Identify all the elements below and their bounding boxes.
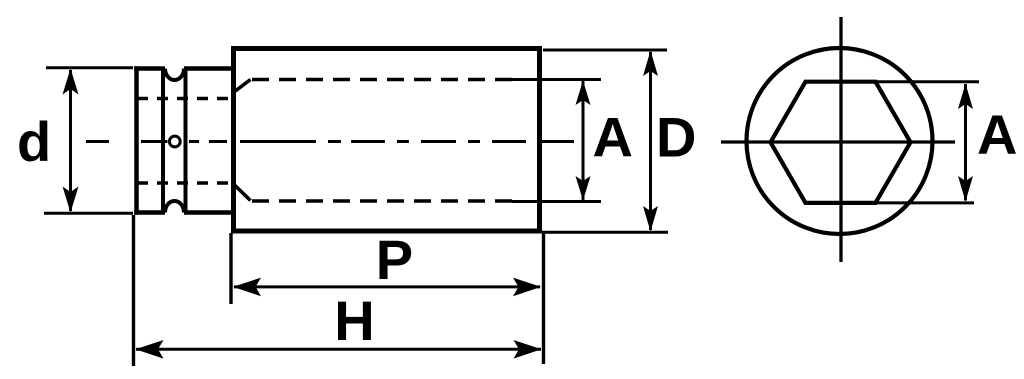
dimension A (side view) arrowhead down [576, 176, 591, 201]
svg-text:A: A [593, 106, 633, 169]
dimension P extension line left [229, 233, 232, 304]
dimension P arrow line [234, 285, 540, 288]
dimension H arrowhead right [514, 340, 542, 359]
end view: hex bore [771, 82, 911, 203]
dimension A (side view) extension line top [512, 78, 601, 81]
svg-text:D: D [656, 106, 696, 169]
socket body outline [234, 49, 540, 232]
hex bore hidden line bottom (dashed) [252, 199, 522, 203]
end view: horizontal center line [721, 140, 955, 143]
dimension d arrow line [69, 70, 72, 211]
dimension P arrowhead right [513, 278, 541, 297]
shared extension line right (P and H) [542, 233, 545, 364]
dimension H arrowhead left [136, 340, 164, 359]
dimension A (side view) arrowhead up [576, 81, 591, 106]
dimension d arrowhead down [63, 187, 79, 213]
hex bore chamfer top [234, 80, 251, 93]
detent ball [169, 136, 180, 147]
svg-text:H: H [334, 289, 374, 352]
svg-text:P: P [376, 228, 413, 291]
dimension A (side view) arrow line [582, 81, 585, 200]
dimension H extension line left [132, 215, 135, 366]
svg-text:d: d [17, 110, 51, 173]
shank hidden edge top (dashed) [137, 97, 231, 100]
retaining ring groove top notch [165, 69, 184, 81]
end view: socket outer circle [747, 48, 933, 234]
end view: vertical center line [839, 17, 842, 262]
svg-text:A: A [977, 103, 1017, 166]
dimension d extension line top [46, 66, 133, 69]
dimension D extension line bottom [542, 231, 668, 234]
dimension D arrow line [649, 52, 652, 230]
dimension D extension line top [543, 49, 667, 52]
dimension d extension line bottom [44, 212, 133, 215]
dimension A (end view) arrowhead down [958, 176, 973, 202]
dimension A (end view) extension line top [874, 80, 979, 83]
dimension D arrowhead down [643, 206, 658, 232]
retaining ring groove bottom notch [165, 201, 184, 212]
groove left edge [161, 69, 165, 213]
dimension A (side view) extension line bottom [512, 200, 601, 203]
dimension A (end view) arrowhead up [958, 84, 973, 110]
dimension D arrowhead up [643, 51, 658, 77]
dimension A (end view) extension line bottom [874, 201, 974, 204]
hex bore chamfer bottom [234, 185, 251, 201]
dimension A (end view) arrow line [964, 84, 967, 201]
dimension d arrowhead up [63, 69, 79, 95]
center line (dash-dot axis of socket, side view) [86, 140, 574, 143]
dimension P arrowhead left [233, 278, 261, 297]
hex bore hidden line top (dashed) [252, 78, 522, 82]
dimension H arrow line [136, 348, 541, 351]
shank hidden edge bottom (dashed) [137, 181, 231, 184]
square drive shank outline [134, 66, 232, 214]
groove right edge [184, 69, 188, 213]
